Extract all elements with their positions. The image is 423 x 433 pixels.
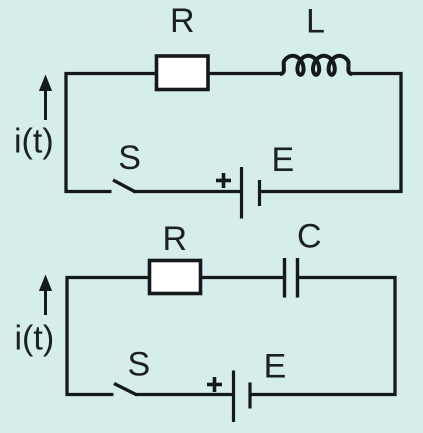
wire switch to bottom-left corner (circuit 2) [66,393,114,396]
svg-text:R: R [163,220,188,258]
svg-text:L: L [306,3,325,41]
capacitor C left plate [283,258,286,298]
battery E2 short plate [248,383,251,409]
battery E1 plus sign [216,173,231,188]
svg-text:i(t): i(t) [15,320,55,358]
capacitor C right plate [296,258,299,298]
wire switch to bottom-left corner (circuit 1) [65,190,112,193]
switch S1 blade [113,180,136,192]
resistor R2 [150,261,201,294]
wire right vertical (circuit 1) [399,72,402,193]
wire capacitor C to top-right corner (circuit 2) [299,276,397,279]
svg-text:R: R [170,2,195,40]
wire right vertical (circuit 2) [393,276,396,396]
svg-text:S: S [128,346,151,384]
svg-text:E: E [272,141,295,179]
svg-text:i(t): i(t) [14,123,54,161]
wire battery to switch (circuit 2) [136,393,233,396]
svg-text:C: C [297,218,322,256]
resistor R1 [157,56,209,90]
wire bottom-right to battery (circuit 1) [261,190,403,193]
current arrow i(t) circuit 2 [39,275,52,316]
battery E1 short plate [258,180,261,206]
svg-text:E: E [264,348,287,386]
battery E2 long plate [232,371,235,423]
current arrow i(t) circuit 1 [39,75,52,121]
wire top-left horizontal (circuit 1) [65,72,157,75]
wire inductor L to top-right corner [351,72,403,75]
wire left vertical (circuit 2) [65,276,68,396]
battery E1 long plate [240,167,243,219]
wire resistor R2 to capacitor C [201,276,284,279]
wire resistor R1 to inductor L [208,72,281,75]
wire top-left horizontal (circuit 2) [66,276,150,279]
wire left vertical (circuit 1) [64,72,67,193]
svg-text:S: S [118,139,141,177]
inductor L1 coil [280,56,353,75]
wire bottom-right to battery (circuit 2) [251,393,397,396]
wire battery to switch (circuit 1) [134,190,240,193]
switch S2 blade [114,384,137,396]
battery E2 plus sign [207,377,222,392]
